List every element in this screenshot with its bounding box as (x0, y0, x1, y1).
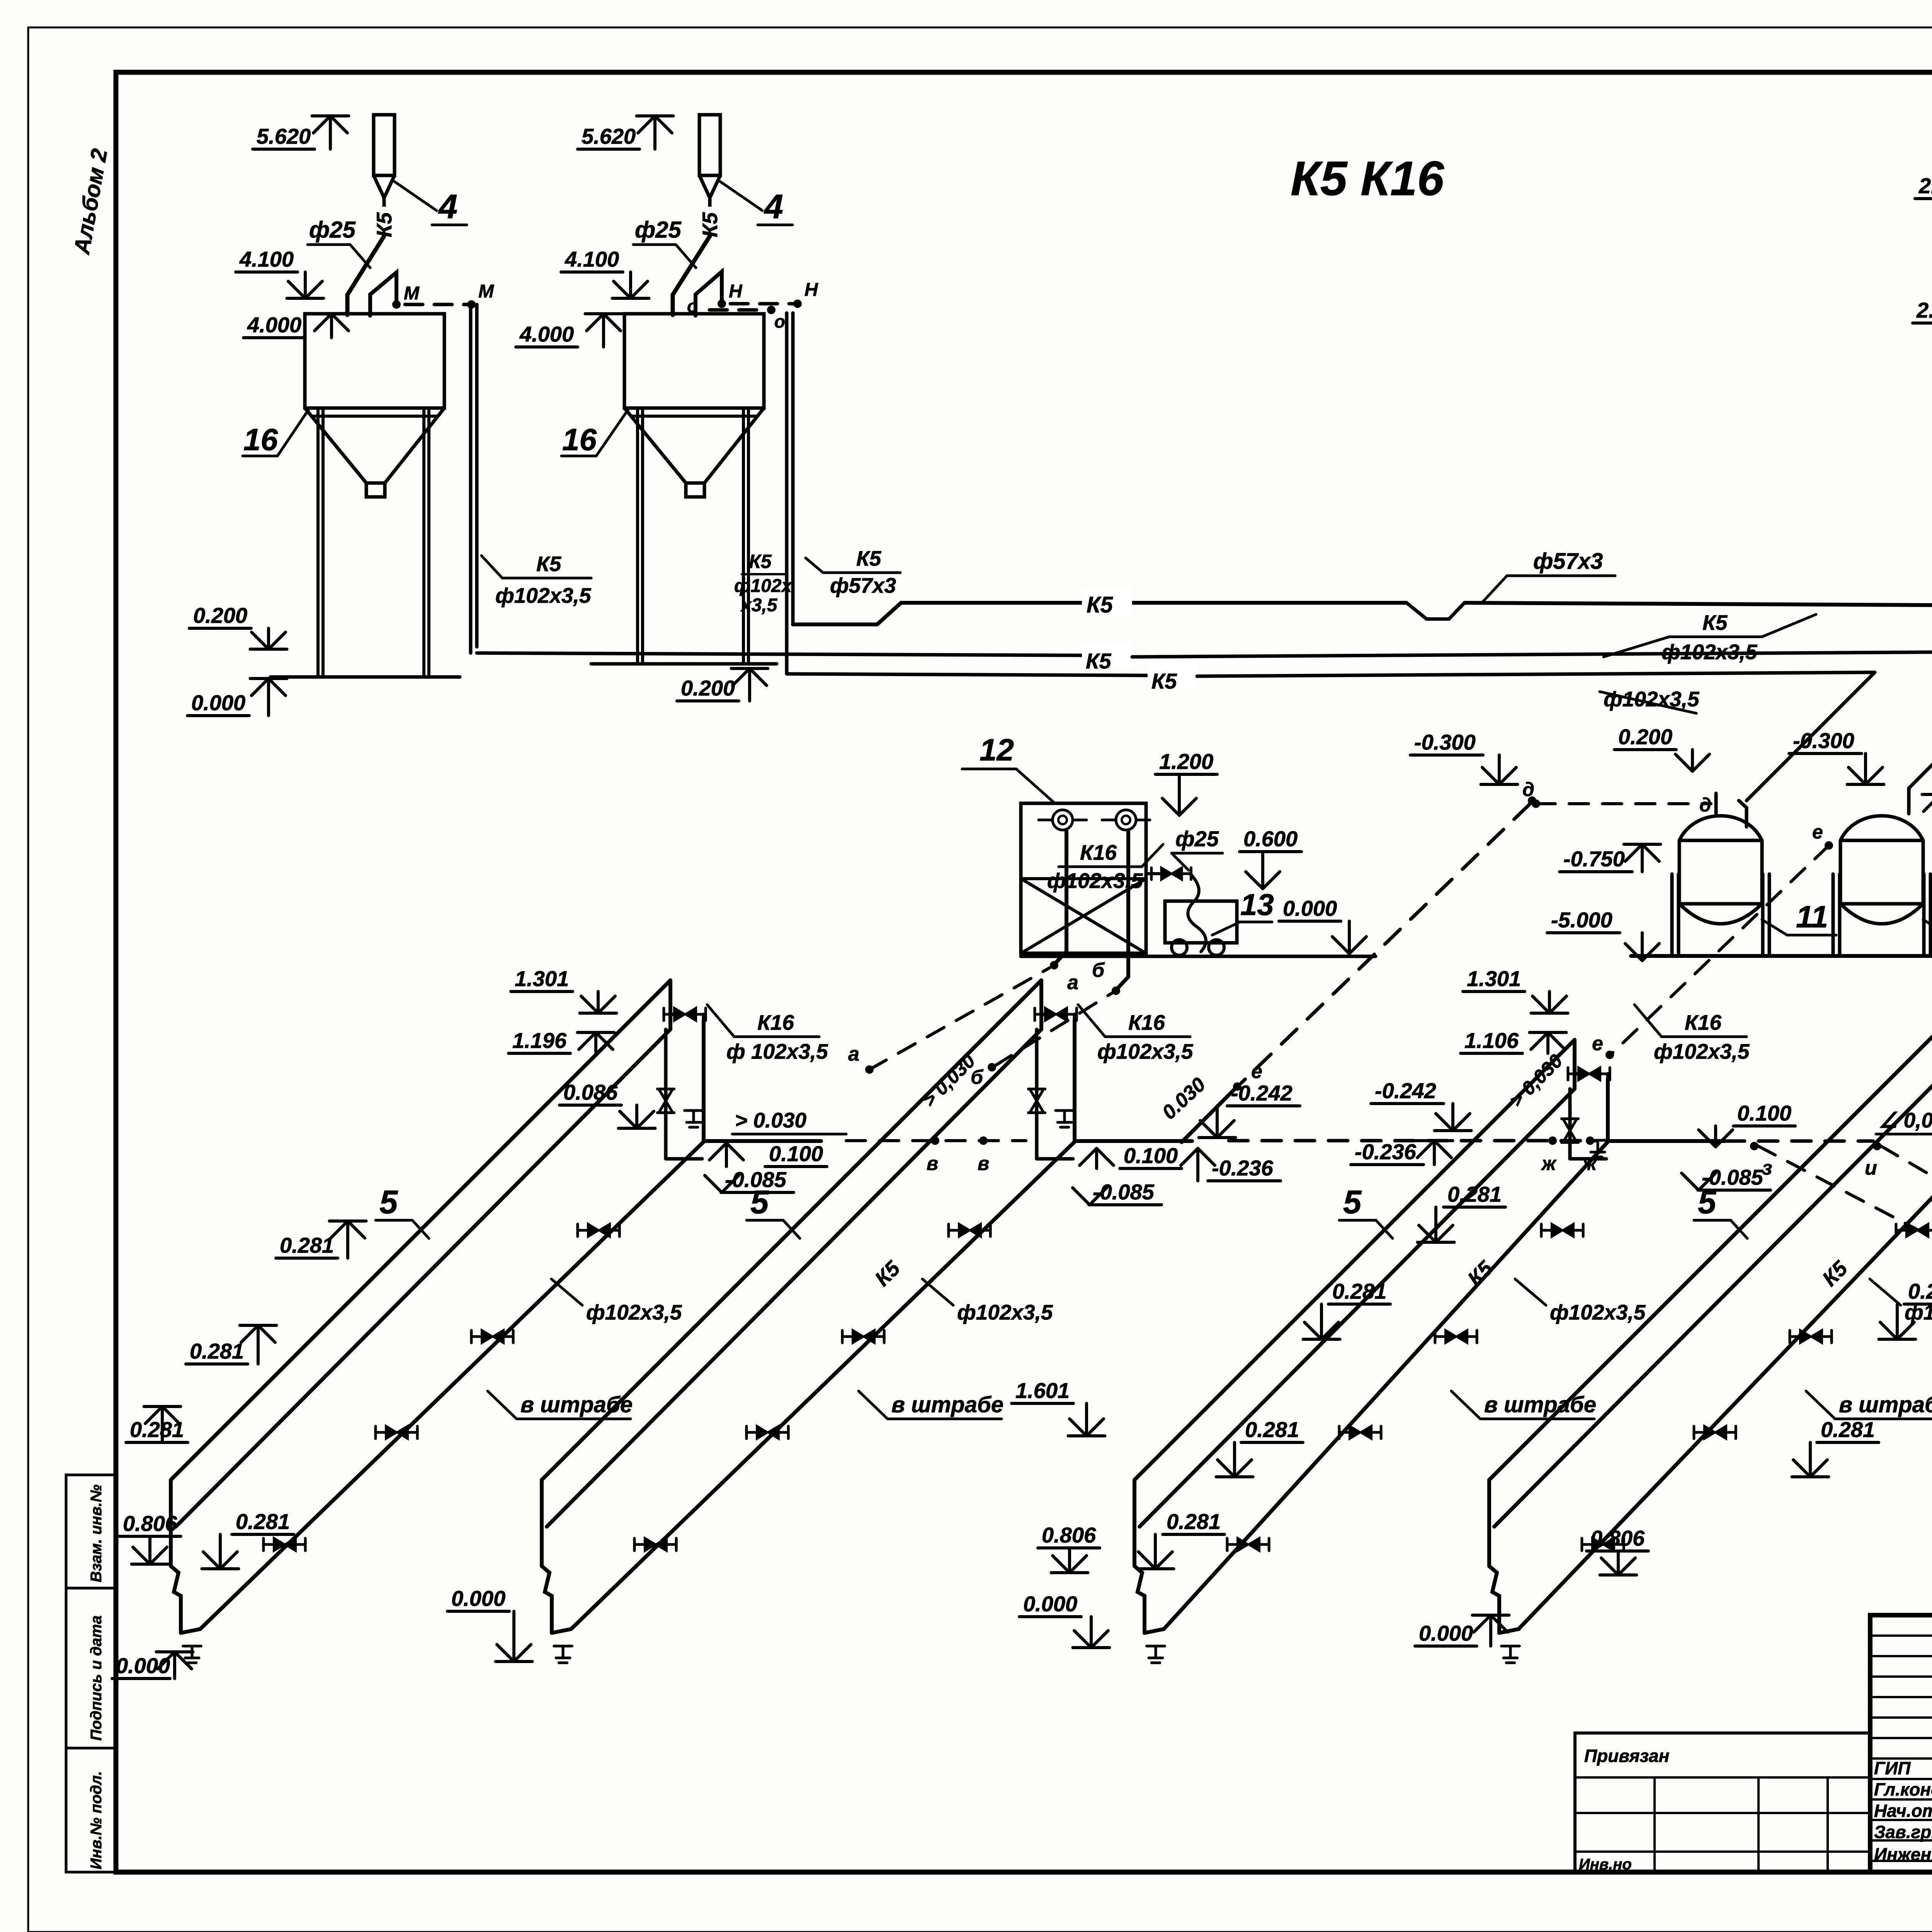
svg-text:5: 5 (1343, 1184, 1362, 1221)
svg-text:2.980: 2.980 (1918, 173, 1932, 198)
svg-text:0.000: 0.000 (1419, 1621, 1473, 1645)
node d dashed line (1536, 802, 1711, 805)
svg-text:К5: К5 (749, 551, 772, 572)
channel m1 floor line (200, 1142, 704, 1629)
vessel 11 body (1840, 816, 1923, 924)
svg-text:-0.242: -0.242 (1231, 1081, 1293, 1105)
label 4 right (720, 182, 762, 211)
svg-text:К16: К16 (1080, 840, 1117, 864)
node a (1056, 951, 1066, 963)
svg-text:4: 4 (764, 187, 783, 226)
svg-text:12: 12 (980, 733, 1014, 767)
svg-text:ф102х3,5: ф102х3,5 (1047, 869, 1143, 893)
silo legs (636, 410, 639, 664)
svg-text:К5 К16: К5 К16 (1291, 152, 1444, 206)
svg-text:ф25: ф25 (309, 217, 356, 243)
svg-text:0.100: 0.100 (1737, 1101, 1791, 1125)
ground line under left silo (270, 675, 460, 679)
svg-text:в штрабе: в штрабе (1839, 1392, 1932, 1417)
channel m4 foot outfall (1502, 1645, 1520, 1648)
svg-text:0.600: 0.600 (1243, 827, 1298, 851)
svg-text:д: д (1522, 779, 1534, 800)
svg-text:1.301: 1.301 (1467, 966, 1521, 991)
svg-text:0.281: 0.281 (190, 1339, 244, 1363)
svg-text:0.281: 0.281 (1908, 1279, 1932, 1303)
silo 16 body (624, 314, 764, 408)
svg-text:1.601: 1.601 (1015, 1378, 1070, 1403)
node e m2 (1233, 1082, 1242, 1091)
svg-text:К5: К5 (536, 552, 562, 576)
dashed channel m2 to m3 (1229, 1139, 1596, 1143)
feeder pipe K5 (383, 198, 386, 236)
node b (1117, 977, 1128, 988)
vessel 11 body (1679, 816, 1762, 924)
pipeline K5 f57x3 upper (793, 622, 877, 626)
svg-text:Инв.но: Инв.но (1579, 1856, 1632, 1873)
svg-text:ф102х: ф102х (734, 576, 793, 596)
riser top valve m2 (1041, 1013, 1051, 1016)
svg-text:0.281: 0.281 (236, 1509, 290, 1534)
svg-text:1.200: 1.200 (1159, 749, 1213, 774)
svg-text:0.281: 0.281 (1167, 1509, 1221, 1534)
label 4 left (395, 182, 437, 211)
svg-text:0.281: 0.281 (1821, 1417, 1875, 1442)
svg-text:0.000: 0.000 (1023, 1592, 1077, 1616)
vessel legs (1832, 874, 1835, 956)
svg-text:4.100: 4.100 (565, 247, 619, 271)
valves on channel m3 (1238, 1538, 1249, 1551)
riser outfall symbol m2 (1056, 1109, 1074, 1112)
channel m2 inner wall line (547, 1029, 1041, 1527)
svg-text:Н: Н (729, 281, 743, 302)
svg-text:б: б (1092, 959, 1105, 981)
pipeline A2 drop to vessel A (1747, 672, 1875, 801)
silo funnel (624, 408, 686, 483)
svg-text:0.200: 0.200 (1618, 724, 1672, 749)
svg-text:ф 102х3,5: ф 102х3,5 (726, 1039, 828, 1063)
svg-text:а: а (848, 1043, 859, 1065)
slope diagonal at node d dashed (1241, 804, 1529, 1083)
svg-text:ф102х3,5: ф102х3,5 (1654, 1039, 1750, 1063)
svg-text:5: 5 (379, 1184, 398, 1221)
svg-text:х3,5: х3,5 (740, 595, 778, 616)
channel m3 upper wall line (1134, 1040, 1575, 1480)
dashed i to unit12 right (1881, 1146, 1932, 1399)
svg-text:∠ 0,030: ∠ 0,030 (1879, 1108, 1932, 1132)
dashed from e to lower channels (1612, 845, 1829, 1053)
label K5 on upper pipeline (1082, 587, 1132, 616)
svg-text:К5: К5 (1702, 611, 1728, 634)
riser inline valve m2 (1035, 1029, 1039, 1159)
svg-text:ф102х3,5: ф102х3,5 (1604, 687, 1700, 711)
vessel A inlet stub d (1714, 793, 1718, 814)
svg-text:0.100: 0.100 (1124, 1143, 1178, 1168)
title block main table (1870, 1615, 1932, 1872)
svg-text:4.000: 4.000 (519, 322, 574, 346)
channel m1 upper wall line (171, 980, 670, 1480)
channel m2 top cap (1039, 980, 1043, 1029)
svg-text:ф57х3: ф57х3 (1533, 549, 1603, 574)
node e on m3 riser (1605, 1051, 1614, 1059)
riser outfall symbol m1 (685, 1109, 703, 1112)
riser inline valve m3 (1568, 1089, 1572, 1159)
svg-text:в: в (927, 1153, 938, 1174)
channel m4 inner wall line (1494, 1066, 1932, 1527)
label 11 B (1923, 920, 1932, 935)
riser inline valve m1 (664, 1029, 668, 1159)
svg-text:0.281: 0.281 (1332, 1279, 1386, 1303)
channel m3 top cap (1573, 1040, 1577, 1089)
svg-text:-0.300: -0.300 (1793, 728, 1854, 753)
svg-text:ф25: ф25 (1175, 827, 1219, 851)
svg-text:о: о (774, 311, 785, 332)
dashed channel m3 to m4 (1725, 1139, 1873, 1143)
svg-text:К5: К5 (698, 212, 722, 237)
silo 16 body (305, 314, 444, 408)
svg-text:в штрабе: в штрабе (1484, 1392, 1596, 1417)
svg-text:е: е (1251, 1060, 1262, 1083)
title block aux table (1575, 1733, 1870, 1872)
slope line at m1 riser (704, 1139, 821, 1143)
channel m1 left cap (169, 1480, 173, 1566)
silo funnel (305, 408, 366, 483)
feeder 4 body (374, 115, 395, 175)
vessels ground line (1631, 954, 1932, 958)
svg-text:Привязан: Привязан (1584, 1746, 1669, 1766)
pipeline A1 from left silo (477, 653, 1081, 655)
riser outfall symbol m3 (1589, 1139, 1607, 1142)
svg-text:-0.242: -0.242 (1375, 1078, 1436, 1103)
riser pipe from left silo K5 f102x3.5 (469, 304, 473, 653)
svg-text:ф102х3,5: ф102х3,5 (1097, 1039, 1194, 1063)
svg-text:-0.750: -0.750 (1563, 847, 1625, 871)
channel m2 upper wall line (542, 980, 1041, 1480)
svg-text:2.000: 2.000 (1916, 298, 1932, 322)
valves on channel m4 (1592, 1538, 1604, 1551)
svg-text:Нач.отд.: Нач.отд. (1874, 1801, 1932, 1821)
svg-text:е: е (1812, 821, 1823, 843)
svg-text:Зав.гр.: Зав.гр. (1874, 1822, 1932, 1842)
channel m1 foot outfall (183, 1645, 201, 1648)
svg-text:0.100: 0.100 (769, 1141, 823, 1166)
node b dashed (995, 993, 1112, 1066)
svg-text:К5: К5 (1087, 592, 1113, 617)
svg-text:К16: К16 (1128, 1010, 1165, 1034)
nodes v v (931, 1136, 939, 1145)
svg-text:13: 13 (1240, 888, 1274, 922)
feeder 4 body (699, 115, 720, 175)
svg-text:Взам. инв.№: Взам. инв.№ (88, 1485, 105, 1582)
node H dashed link (730, 302, 794, 306)
node M dashed link (405, 303, 468, 306)
svg-text:Подпись и дата: Подпись и дата (88, 1616, 105, 1741)
svg-text:М: М (404, 283, 420, 304)
svg-text:-5.000: -5.000 (1551, 908, 1612, 932)
svg-text:К5: К5 (1086, 649, 1111, 673)
svg-text:ф102х3,5: ф102х3,5 (1550, 1300, 1646, 1324)
channel m2 riser pipe (1073, 1020, 1077, 1142)
svg-text:ф102х3,5: ф102х3,5 (495, 583, 592, 607)
svg-text:5.620: 5.620 (257, 124, 311, 148)
slope line from e (1182, 1087, 1237, 1142)
svg-text:о: о (687, 296, 698, 316)
svg-text:ф25: ф25 (635, 217, 682, 243)
svg-text:0.000: 0.000 (451, 1586, 505, 1611)
riser top valve m1 (670, 1013, 680, 1016)
svg-text:0.000: 0.000 (191, 690, 245, 715)
dashed z to unit12 right (1758, 1146, 1932, 1400)
dashed channel line m1 to m2 (846, 1139, 1026, 1142)
unit 12 frame left (1021, 803, 1146, 953)
svg-text:1.301: 1.301 (515, 966, 569, 991)
svg-text:0.086: 0.086 (563, 1080, 618, 1104)
svg-text:ф102х3,5: ф102х3,5 (1662, 640, 1758, 664)
svg-text:а: а (1067, 971, 1078, 994)
node z m3 (1750, 1142, 1759, 1150)
hose to trolley left (1188, 874, 1206, 952)
svg-text:> 0.030: > 0.030 (735, 1108, 806, 1132)
svg-text:1.196: 1.196 (512, 1028, 567, 1053)
svg-text:16: 16 (562, 422, 597, 457)
pipe break upper left (1406, 603, 1464, 619)
svg-text:4.000: 4.000 (247, 313, 301, 337)
svg-text:К5: К5 (1151, 669, 1177, 693)
label 11 A (1762, 920, 1787, 935)
svg-text:1.106: 1.106 (1464, 1028, 1519, 1053)
svg-text:5: 5 (750, 1184, 769, 1221)
unit 12 hose reels left (1053, 810, 1073, 830)
gooseneck H on right silo (696, 272, 722, 316)
ground line unit 12 left (1021, 955, 1376, 958)
svg-text:К5: К5 (372, 212, 396, 237)
svg-text:5: 5 (1698, 1184, 1717, 1221)
riser pipe from right silo (785, 313, 789, 674)
svg-text:ж: ж (1541, 1153, 1557, 1174)
channel m3 left cap (1133, 1480, 1136, 1566)
slope line at m2 riser (1075, 1139, 1192, 1143)
feeder pipe K5 (708, 198, 712, 236)
svg-text:ф57х3: ф57х3 (830, 573, 896, 597)
riser top valve m3 (1575, 1072, 1585, 1076)
node a dashed to unit12 left (869, 968, 1049, 1070)
slope line at m3 riser (1608, 1139, 1725, 1143)
svg-text:в: в (978, 1153, 989, 1174)
valves on channel m2 (645, 1538, 656, 1551)
svg-text:0.806: 0.806 (123, 1511, 177, 1536)
channel m3 floor line (1164, 1142, 1608, 1629)
svg-text:М: М (478, 281, 494, 302)
channel m3 inner wall line (1139, 1089, 1575, 1527)
channel m2 foot outfall (554, 1645, 572, 1648)
trolley 13 left (1165, 901, 1237, 943)
svg-text:ф102х3,5: ф102х3,5 (957, 1300, 1053, 1324)
channel m3 riser pipe (1606, 1079, 1610, 1142)
channel m1 inner wall line (176, 1029, 670, 1527)
node e at vessel B (1825, 841, 1833, 850)
channel m2 floor line (571, 1142, 1075, 1629)
channel m4 left cap (1487, 1480, 1491, 1566)
svg-text:16: 16 (243, 422, 278, 457)
channel m2 left cap (540, 1480, 544, 1566)
svg-text:5.620: 5.620 (582, 124, 636, 148)
silo legs (316, 410, 320, 677)
pipeline A1 drop to vessel B (1909, 651, 1932, 788)
ground line under right silo (591, 662, 777, 666)
svg-text:ж: ж (1581, 1153, 1597, 1174)
gooseneck M on left silo (370, 272, 396, 316)
node i m4 (1873, 1142, 1881, 1150)
vessel legs (1670, 874, 1674, 956)
svg-text:Инжен.: Инжен. (1874, 1844, 1932, 1864)
svg-text:0.281: 0.281 (1447, 1182, 1502, 1206)
svg-text:Гл.конст.: Гл.конст. (1874, 1779, 1932, 1799)
svg-text:е: е (1592, 1032, 1603, 1055)
svg-text:в штрабе: в штрабе (891, 1392, 1003, 1417)
vessel A outlet bend (1739, 801, 1747, 827)
channel m4 floor line (1519, 1142, 1932, 1629)
svg-text:-0.300: -0.300 (1414, 730, 1476, 754)
svg-text:Инв.№ подл.: Инв.№ подл. (88, 1771, 105, 1869)
svg-text:0.200: 0.200 (193, 603, 247, 628)
svg-text:ГИП: ГИП (1874, 1758, 1911, 1778)
svg-text:0.000: 0.000 (1283, 896, 1337, 920)
svg-text:ф102х3,5: ф102х3,5 (586, 1300, 682, 1324)
svg-text:К16: К16 (757, 1010, 794, 1034)
svg-text:Н: Н (804, 280, 818, 300)
label 13 left (1212, 923, 1238, 935)
svg-text:з: з (1762, 1157, 1772, 1179)
valves on channel m1 (274, 1538, 285, 1551)
channel m1 riser pipe (702, 1020, 706, 1142)
svg-text:К16: К16 (1685, 1010, 1721, 1034)
svg-text:0.281: 0.281 (1245, 1417, 1299, 1442)
svg-text:11: 11 (1796, 900, 1828, 934)
svg-text:и: и (1865, 1157, 1877, 1179)
svg-text:4.100: 4.100 (239, 247, 294, 271)
svg-text:4: 4 (438, 187, 457, 226)
unit 12 left label (1016, 769, 1055, 803)
svg-text:0.806: 0.806 (1042, 1523, 1096, 1547)
svg-text:0.281: 0.281 (280, 1233, 334, 1257)
channel m3 foot outfall (1147, 1645, 1165, 1648)
svg-text:К5: К5 (856, 546, 882, 570)
svg-text:-0.236: -0.236 (1212, 1156, 1274, 1180)
pipeline A2 from right silo (787, 674, 1147, 675)
channel m4 upper wall line (1489, 1017, 1932, 1480)
left margin boxes (66, 1475, 116, 1872)
vessel B inlet from pipeline (1907, 788, 1911, 814)
unit 12 left pipes down (1065, 830, 1068, 951)
node zh (1548, 1136, 1557, 1145)
unit 12 left outlet valve (1146, 872, 1159, 875)
channel m1 top cap (668, 980, 672, 1029)
svg-text:0.200: 0.200 (681, 676, 735, 700)
svg-text:-0.236: -0.236 (1355, 1139, 1417, 1164)
